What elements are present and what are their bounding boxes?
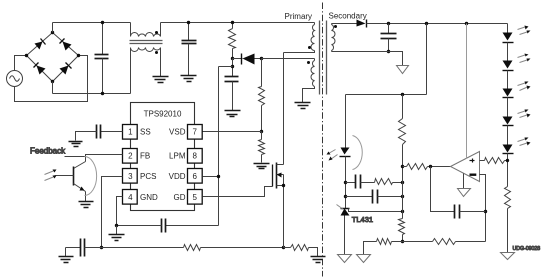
LED D14 bbox=[503, 138, 531, 187]
node VDD tap bbox=[231, 65, 234, 68]
wire pin 4 GND to ground node bbox=[117, 197, 123, 226]
pin name labels bbox=[140, 128, 158, 202]
T1 aux phase dot bbox=[307, 61, 310, 64]
capacitor C2 bbox=[182, 23, 197, 76]
T1 core lines bbox=[320, 21, 327, 95]
capacitor C6 (series with R7) bbox=[346, 175, 375, 189]
node RC row left bbox=[344, 181, 347, 184]
transformer T1 primary winding bbox=[284, 23, 315, 53]
resistor R11 bottom left bbox=[364, 239, 403, 255]
wire secondary return bbox=[332, 52, 403, 66]
IC U1 TPS92010 body bbox=[131, 103, 195, 211]
wire source down to sense node bbox=[283, 175, 285, 248]
svg-text:Feedback: Feedback bbox=[30, 147, 66, 156]
diode D5 aux rectifier bbox=[233, 54, 262, 65]
pin 8 box bbox=[188, 149, 203, 164]
node analog ground bbox=[115, 224, 118, 227]
node bridge left bbox=[25, 54, 28, 57]
node C2 top bbox=[187, 21, 190, 24]
TL431 U2 bbox=[337, 205, 350, 255]
T1 secondary phase dot bbox=[334, 25, 337, 28]
node TL431 row right bbox=[401, 210, 404, 213]
op-amp ground stem bbox=[463, 174, 465, 189]
node VSD bbox=[260, 130, 263, 133]
node C7 row left bbox=[344, 195, 347, 198]
optocoupler LED housing arc bbox=[353, 136, 363, 170]
LED D13 bbox=[503, 110, 531, 145]
node bridge top bbox=[51, 31, 54, 34]
resistor R3 VSD lower divider bbox=[259, 132, 265, 163]
op-amp minus sign bbox=[470, 174, 477, 176]
node C1 top bbox=[101, 21, 104, 24]
node aux wire bbox=[260, 57, 263, 60]
capacitor C9 VDD decoupling bbox=[117, 219, 219, 233]
wire VSD node to pin 7 bbox=[203, 131, 262, 133]
resistor R12 LED current sense bbox=[505, 187, 511, 253]
wire aux node to aux winding top bbox=[262, 58, 315, 60]
wire pin 3 PCS to sense row bbox=[102, 177, 123, 248]
ground op-amp (open triangle) bbox=[458, 189, 471, 197]
ground shunt bbox=[311, 257, 326, 263]
wire TL431 cathode row bbox=[349, 209, 403, 212]
wire opto LED drop bbox=[345, 95, 347, 148]
svg-text:Secondary: Secondary bbox=[329, 12, 367, 21]
resistor R1 startup (rail to VDD node) bbox=[229, 23, 236, 59]
op-amp U3 bbox=[451, 152, 480, 182]
svg-text:UDG-09028: UDG-09028 bbox=[513, 246, 541, 252]
choke L1 phase dot bottom bbox=[155, 51, 158, 54]
node LED sense bbox=[506, 159, 509, 162]
MOSFET Q1 bbox=[273, 163, 284, 189]
wire opto feed drop bbox=[426, 24, 428, 95]
node C1 bottom bbox=[101, 92, 104, 95]
isolation barrier dash-dot line bbox=[322, 3, 324, 277]
wire FB pin 2 to opto collector bbox=[86, 155, 123, 162]
optocoupler LED light arrows bbox=[327, 150, 338, 161]
node output cap top bbox=[387, 22, 390, 25]
wire VDD vertical bbox=[218, 67, 220, 226]
common-mode choke L1 top winding bbox=[131, 23, 161, 37]
node VDD rect bbox=[231, 57, 234, 60]
capacitor C5 soft-start on pin 1 bbox=[76, 125, 123, 141]
ground opto emitter bbox=[79, 202, 94, 208]
svg-text:7: 7 bbox=[192, 128, 197, 137]
optocoupler transistor housing arc bbox=[85, 157, 97, 196]
ground sense filter bbox=[59, 248, 74, 263]
resistor R14 current sense shunt bbox=[284, 245, 318, 257]
node R1 top bbox=[231, 21, 234, 24]
wire output rail bbox=[367, 23, 508, 25]
diode D3 lower-left (B to L) bbox=[34, 63, 46, 75]
ground GND node bbox=[109, 226, 125, 241]
ground TL431 anode (open triangle) bbox=[338, 255, 352, 263]
diode D1 upper-left (L to T) bbox=[35, 39, 46, 50]
resistor R2 VSD upper divider bbox=[259, 59, 265, 132]
svg-text:TPS92010: TPS92010 bbox=[144, 110, 182, 119]
resistor R8 op-amp output bbox=[403, 164, 451, 170]
node opto feed bbox=[425, 22, 428, 25]
pin 1 box bbox=[123, 125, 138, 140]
optocoupler phototransistor Q2 bbox=[55, 162, 86, 202]
resistor R9 op-amp plus input bbox=[480, 158, 508, 164]
svg-text:3: 3 bbox=[128, 172, 133, 181]
svg-text:Primary: Primary bbox=[285, 12, 313, 21]
LED D11 bbox=[503, 54, 531, 89]
node bridge bottom bbox=[51, 80, 54, 83]
transformer T1 aux winding bbox=[303, 59, 315, 103]
node source/body bbox=[282, 184, 285, 187]
node minus input / C8 bbox=[484, 210, 487, 213]
wire return rail bbox=[53, 93, 131, 95]
wire AC top to bridge left bbox=[15, 56, 27, 71]
ground C2 bbox=[181, 76, 197, 82]
svg-text:5: 5 bbox=[192, 193, 197, 202]
wire op-amp minus input bbox=[480, 175, 486, 242]
AC source V1 bbox=[7, 71, 23, 87]
svg-text:2: 2 bbox=[128, 151, 133, 160]
svg-text:8: 8 bbox=[192, 151, 197, 160]
wire LED string top bbox=[507, 24, 509, 33]
svg-text:VDD: VDD bbox=[169, 172, 186, 181]
wire VDD tap to VDD vertical bbox=[219, 66, 233, 68]
pin 3 box bbox=[123, 169, 138, 184]
T1 primary phase dot bbox=[308, 46, 311, 49]
ground secondary return (open triangle) bbox=[397, 66, 409, 74]
LED D10 bbox=[503, 26, 531, 61]
op-amp plus sign bbox=[470, 159, 475, 163]
diode D4 lower-right (B to R) bbox=[60, 63, 72, 75]
bridge rectifier outline bbox=[27, 33, 79, 82]
svg-text:VSD: VSD bbox=[169, 128, 186, 137]
resistor R7 (series with C6) bbox=[375, 179, 403, 185]
node RC row right bbox=[401, 181, 404, 184]
resistor R10 bottom right bbox=[403, 239, 486, 245]
transformer T1 secondary winding bbox=[332, 24, 336, 52]
diode D6 output rectifier bbox=[332, 20, 367, 28]
node VDD pin tap bbox=[217, 175, 220, 178]
svg-text:1: 1 bbox=[128, 128, 133, 137]
wire pin 6 VDD stub bbox=[203, 176, 219, 178]
wire pin 5 GD to gate bbox=[203, 187, 273, 197]
diode D2 upper-right (R to T) bbox=[60, 39, 72, 51]
svg-text:TL431: TL431 bbox=[352, 215, 373, 224]
opto light arrows into transistor bbox=[45, 170, 57, 181]
svg-text:GD: GD bbox=[174, 193, 186, 202]
pin 4 box bbox=[123, 190, 138, 205]
svg-text:FB: FB bbox=[140, 151, 150, 160]
op-amp supply line bbox=[466, 24, 468, 159]
ground LED sense (open triangle) bbox=[501, 253, 515, 260]
resistor R6 divider lower bbox=[399, 219, 405, 242]
pin 6 box bbox=[188, 169, 203, 184]
node PCS sense bbox=[100, 246, 103, 249]
capacitor C7 bbox=[346, 190, 403, 204]
ground C3 bbox=[225, 111, 241, 117]
wire bridge top to HV rail bbox=[52, 23, 54, 33]
resistor R5 divider upper bbox=[399, 95, 406, 219]
optocoupler LED bbox=[340, 148, 351, 209]
node op-amp supply bbox=[465, 22, 468, 25]
wire AC bottom loop to bridge right bbox=[15, 56, 88, 102]
choke L1 phase dot top bbox=[155, 31, 158, 34]
pin number labels bbox=[128, 128, 197, 202]
svg-text:4: 4 bbox=[128, 193, 133, 202]
node C7 row right bbox=[401, 195, 404, 198]
node MOSFET source sense bbox=[282, 246, 285, 249]
capacitor C10 sense filter bbox=[66, 239, 102, 257]
node chain/output row bbox=[401, 165, 404, 168]
node output cap bottom bbox=[387, 50, 390, 53]
ground choke bbox=[153, 77, 169, 83]
wire drain to primary bbox=[283, 53, 285, 165]
svg-text:SS: SS bbox=[140, 128, 151, 137]
node chain bottom bbox=[401, 240, 404, 243]
svg-text:GND: GND bbox=[140, 193, 158, 202]
node divider chain top bbox=[401, 93, 404, 96]
wire HV rail middle segment bbox=[161, 22, 315, 24]
node bridge right bbox=[77, 54, 80, 57]
capacitor C8 op-amp feedback bbox=[431, 167, 486, 219]
capacitor C1 bulk input bbox=[95, 23, 109, 94]
resistor R13 PCS filter bbox=[102, 245, 284, 251]
node feedback cap tap bbox=[429, 165, 432, 168]
choke L1 core lines bbox=[130, 41, 163, 44]
LED D12 bbox=[503, 82, 531, 117]
choke L1 bottom winding bbox=[131, 48, 161, 94]
svg-text:LPM: LPM bbox=[169, 151, 186, 160]
pin 7 box bbox=[188, 125, 203, 140]
pin 2 box bbox=[123, 149, 138, 164]
Feedback label leader line bbox=[65, 156, 86, 158]
pin 5 box bbox=[188, 190, 203, 205]
svg-text:PCS: PCS bbox=[140, 172, 156, 181]
ground aux winding bbox=[295, 103, 311, 109]
wire opto feed row bbox=[346, 94, 427, 96]
capacitor C3 VDD storage bbox=[225, 59, 239, 111]
wire bridge bottom to return rail bbox=[52, 82, 54, 94]
ground bottom row (open triangle) bbox=[357, 255, 371, 263]
wire HV rail left segment bbox=[53, 22, 131, 24]
svg-text:6: 6 bbox=[192, 172, 197, 181]
ground R3 bbox=[254, 164, 270, 169]
ground C5 bbox=[69, 142, 83, 147]
capacitor C4 output bbox=[381, 24, 397, 52]
